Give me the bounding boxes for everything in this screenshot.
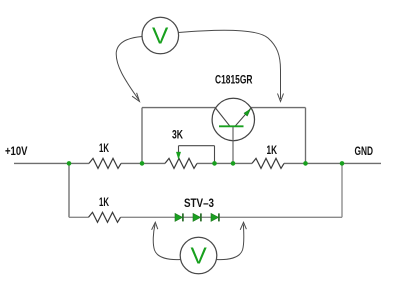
resistor R3 1K (lower) [89,212,121,222]
arrowhead M1 left lead [132,93,139,102]
wire M1 right lead curve [179,30,281,99]
svg-text:1K: 1K [267,143,278,157]
wire main rail segment between VR1 and R2 [197,162,252,164]
svg-text:GND: GND [355,144,374,158]
wire lower loop bottom left segment [69,216,89,218]
arrowhead M2 right lead [240,222,246,230]
arrowhead M2 left lead [152,222,158,230]
wire top loop right vertical [305,108,307,164]
wire top rail left of transistor [142,107,215,109]
diode D2 cathode bar [200,213,202,221]
wire lower loop bottom right segment [121,216,343,218]
junction node dot at top loop left [140,161,145,166]
diode D3 cathode bar [218,213,220,221]
wire lower loop left vertical [68,163,70,217]
wire M2 right lead curve [217,225,244,260]
wire main rail right segment to GND [284,162,381,164]
transistor Q1 emitter arrow [244,109,251,116]
svg-text:3K: 3K [172,128,183,142]
wire top rail right of transistor [251,107,306,109]
svg-text:V: V [152,22,169,48]
svg-text:+10V: +10V [5,144,28,158]
diode D1 cathode bar [182,213,184,221]
wire VR1 wiper stem [178,146,180,152]
wire main rail left segment [14,162,89,164]
resistor R1 1K (upper left) [89,158,121,168]
svg-text:STV–3: STV–3 [184,196,214,210]
wire VR1 wiper top horizontal [179,145,215,147]
arrowhead M1 right lead [278,94,284,102]
svg-text:C1815GR: C1815GR [215,73,253,87]
wire top loop left vertical [141,108,143,164]
transistor Q1 emitter line [235,108,251,126]
svg-text:1K: 1K [99,141,109,155]
junction node dot at top loop right [303,161,308,166]
voltmeter M2 circle (bottom) [180,237,217,274]
wire M1 left lead curve [116,37,142,100]
diode D1 (STV-3 first) triangle [175,213,183,221]
svg-text:V: V [191,243,208,269]
junction node dot at GND branch [340,161,345,166]
voltmeter M1 circle (top) [142,17,179,54]
junction node dot at wiper connection [212,161,217,166]
junction node dot at +10V branch [67,161,72,166]
transistor Q1 collector line [216,108,231,126]
wire main rail segment between R1 and VR1 [121,162,165,164]
transistor Q1 base bar [219,125,244,127]
diode D3 (STV-3 third) triangle [211,213,219,221]
potentiometer VR1 wiper arrow [176,152,180,159]
wire Q1 base down to rail [232,127,234,163]
transistor Q1 circle [212,98,254,140]
resistor R2 1K (right) [252,158,284,168]
wire lower loop right vertical [341,163,343,217]
wire M2 left lead curve [153,225,180,260]
svg-text:1K: 1K [99,195,109,209]
potentiometer VR1 3K body [165,158,197,168]
diode D2 (STV-3 second) triangle [193,213,201,221]
junction node dot at base connection [231,161,236,166]
wire VR1 wiper down to rail [214,146,216,164]
